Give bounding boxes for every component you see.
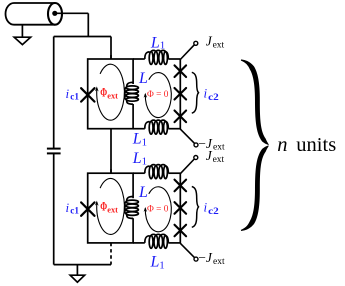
svg-text:units: units <box>296 134 336 156</box>
svg-text:L: L <box>132 130 142 147</box>
svg-text:1: 1 <box>142 136 148 148</box>
svg-text:L: L <box>150 253 160 270</box>
svg-text:1: 1 <box>160 40 166 52</box>
svg-text:L: L <box>132 150 142 167</box>
svg-text:1: 1 <box>142 155 148 167</box>
svg-text:L: L <box>150 34 160 51</box>
svg-text:1: 1 <box>159 259 165 271</box>
svg-text:n: n <box>277 134 287 156</box>
